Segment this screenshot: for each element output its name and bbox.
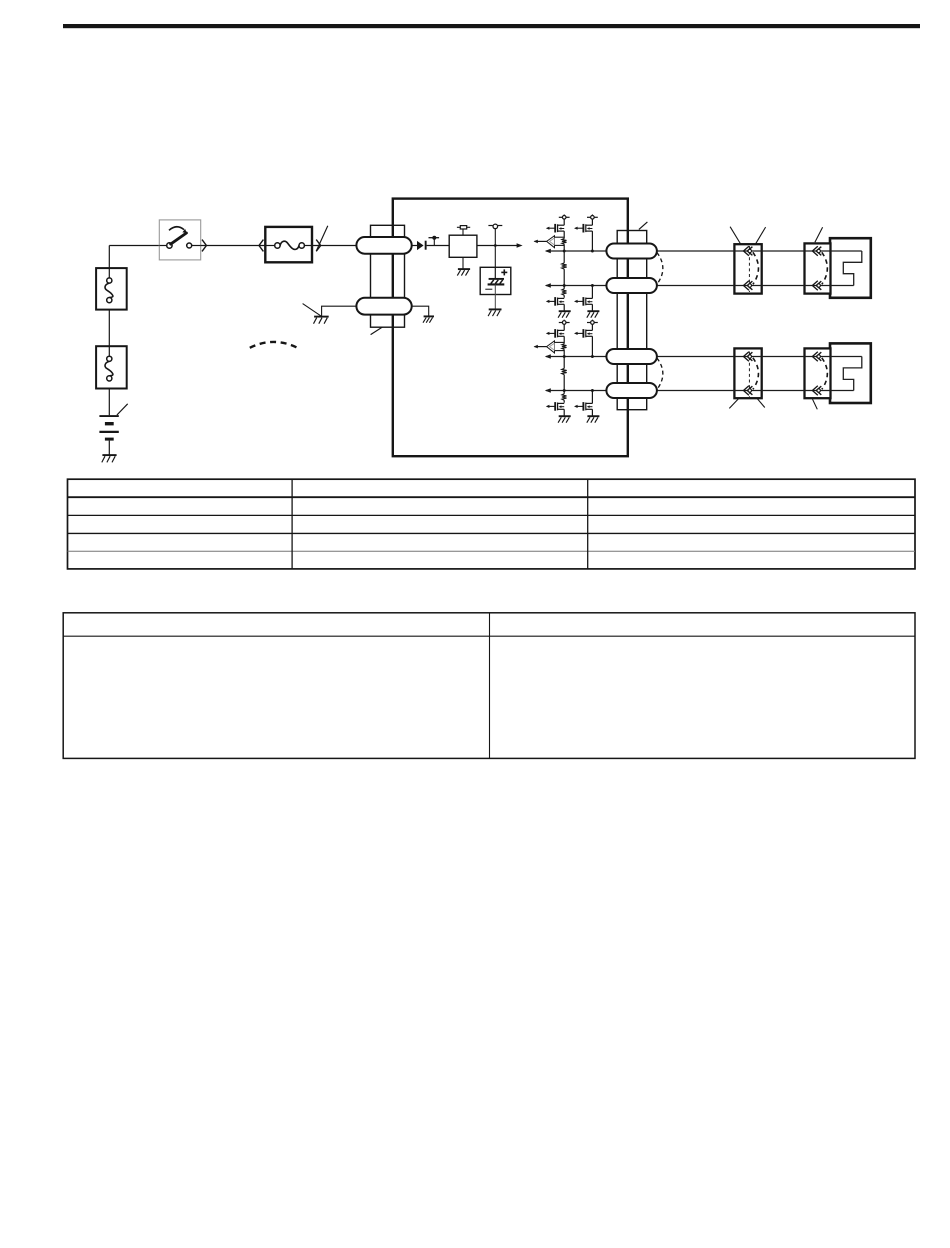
ground left of T1 xyxy=(314,316,329,318)
T2 winding capsule 4 xyxy=(606,383,657,398)
fuse F1 element xyxy=(105,283,113,298)
wire T1 to diode xyxy=(412,245,417,247)
ground Q24 xyxy=(587,415,599,417)
CN2 slash xyxy=(815,227,823,242)
main unit U1 outline xyxy=(393,199,628,457)
ground below BT2 xyxy=(489,308,502,310)
pin circle P4 xyxy=(494,229,496,268)
CN1 contacts xyxy=(748,246,750,292)
sense resistor R13 xyxy=(563,286,565,289)
connector chevron A xyxy=(202,240,206,252)
A1 output arrow xyxy=(534,240,546,242)
sense resistor R21 xyxy=(562,344,567,350)
switch S1 wire-out xyxy=(192,245,201,247)
wire Q23 to ground xyxy=(563,409,565,416)
battery BT1 plate4 xyxy=(105,438,114,441)
fuse F1 contact bottom xyxy=(107,298,112,303)
transistor Q23 xyxy=(547,405,555,407)
sense resistor R11 xyxy=(562,239,567,245)
table 2 header line xyxy=(63,635,915,637)
table 1 row line 3 xyxy=(68,532,916,534)
op-amp A1 xyxy=(547,236,555,248)
supply arrow right xyxy=(517,243,523,248)
fuse F3 contact R xyxy=(299,243,304,248)
slash at left ground xyxy=(303,304,321,316)
table 2 frame xyxy=(63,613,915,759)
header rule xyxy=(63,24,920,28)
transistor Q14 xyxy=(575,300,583,302)
BT2 lead in xyxy=(494,267,496,278)
fuse F2 contact top xyxy=(107,356,112,361)
wire bus to Q14 xyxy=(591,286,593,299)
wire regulator to arrow xyxy=(477,245,517,247)
CN1 slash right xyxy=(756,227,766,244)
wire battery riser xyxy=(108,246,110,269)
op-amp A2 xyxy=(547,341,555,353)
connector chevron C xyxy=(316,240,321,252)
CN3 contacts xyxy=(748,352,750,398)
CN3 slash right xyxy=(757,399,765,408)
motor wire W1 xyxy=(545,249,551,253)
T1 winding capsule top xyxy=(356,237,411,254)
motor M2 winding xyxy=(843,357,862,391)
switch S1 contact R xyxy=(187,243,192,248)
transistor Q24 xyxy=(575,405,583,407)
CN4 slash xyxy=(813,399,818,409)
fuse F3 box xyxy=(265,227,312,262)
slash mark below T1 xyxy=(371,327,383,335)
connector CN4 xyxy=(805,348,831,398)
transformer T2 frame xyxy=(617,231,647,410)
ground Q23 xyxy=(559,415,571,417)
T2 coupling arc top xyxy=(657,253,663,285)
transistor Q12 xyxy=(575,227,583,229)
battery BT1 plate1 xyxy=(99,415,118,417)
table 1 column line 2 xyxy=(587,479,589,569)
bridge resistor R22 xyxy=(563,357,565,369)
fuse F2 contact bottom xyxy=(107,376,112,381)
fuse F1 lead xyxy=(108,268,110,278)
fuse F2 element xyxy=(105,361,113,376)
motor M1 winding xyxy=(843,251,862,286)
transistor Q22 xyxy=(575,332,583,334)
supply pin 1a xyxy=(563,214,565,215)
supply pin 2b xyxy=(591,320,593,321)
table 1 column line 1 xyxy=(291,479,293,569)
junction dots W4 xyxy=(563,389,566,392)
A2 input top xyxy=(555,341,565,343)
motor M1 box xyxy=(830,238,871,298)
CN1 slash left xyxy=(730,227,741,244)
transistor Q11 xyxy=(547,227,555,229)
switch S1 contact L xyxy=(167,243,172,248)
transistor Q13 xyxy=(547,300,555,302)
harness slash C xyxy=(316,226,327,251)
fuse F1 contact top xyxy=(107,278,112,283)
connector CN2 xyxy=(805,243,831,293)
wire fuse to T1 xyxy=(312,245,356,247)
CN4 contacts xyxy=(822,358,828,390)
battery BT1 stub xyxy=(108,441,110,455)
tap point TP1 xyxy=(433,238,435,246)
fuse F3 contact L xyxy=(275,243,280,248)
ground below battery xyxy=(102,454,116,456)
junction dots W3 xyxy=(563,355,566,358)
ground below U2 xyxy=(462,257,464,269)
wire diode to regulator xyxy=(427,245,450,247)
connector CN1 xyxy=(734,244,761,293)
wire pin to Q21 xyxy=(563,324,565,330)
wire Q24 to ground xyxy=(591,409,593,416)
wire T1 cap2 right to ground xyxy=(412,306,429,316)
junction dots W1 xyxy=(563,250,566,253)
wire R11 to bus xyxy=(563,244,565,251)
ignition switch S1 box xyxy=(159,220,200,260)
wire Q11 source xyxy=(563,231,565,238)
T2 winding capsule 2 xyxy=(606,278,657,293)
regulator U2 box xyxy=(449,235,477,257)
ground Q13 xyxy=(559,310,571,312)
wire Q21 source xyxy=(563,336,565,343)
battery BT1 plate2 xyxy=(105,422,114,425)
fuse F3 lead L xyxy=(265,245,274,247)
supply pin 2a xyxy=(563,320,565,321)
connector CN3 xyxy=(734,348,761,398)
ground Q14 xyxy=(587,310,599,312)
CN2 contacts xyxy=(822,252,828,284)
motor wire W4 xyxy=(545,388,551,392)
BT2 plus sign xyxy=(501,271,507,273)
battery BT1 plate3 xyxy=(99,431,118,433)
fuse F1 box xyxy=(96,268,127,310)
ground right of T1 xyxy=(424,315,434,317)
wire switch to fuse xyxy=(201,245,266,247)
transformer T1 frame xyxy=(371,225,405,327)
T2 winding capsule 3 xyxy=(606,349,657,364)
wire T1 cap2 left to ground xyxy=(322,306,357,316)
sense resistor R23 xyxy=(563,391,565,394)
pin symbol above U2 xyxy=(462,229,464,235)
switch S1 lever xyxy=(171,233,187,244)
table 1 header line xyxy=(68,496,916,498)
switch S1 wire-in xyxy=(159,245,166,247)
wire Q13 to ground xyxy=(563,304,565,311)
T2 winding capsule 1 xyxy=(606,244,657,259)
BT2 cell xyxy=(489,278,504,280)
motor wire W2 xyxy=(545,283,551,287)
T1 winding capsule bottom xyxy=(356,298,411,315)
fuse F2 box xyxy=(96,346,127,388)
A2 input bottom xyxy=(555,350,565,352)
junction dots W2 xyxy=(563,284,566,287)
backup battery BT2 box xyxy=(480,267,511,294)
CN3 slash left xyxy=(729,399,738,409)
motor M2 box xyxy=(830,343,871,403)
BT2 lead to ground xyxy=(494,284,496,309)
supply pin 1b xyxy=(591,214,593,215)
BT2 minus sign xyxy=(485,288,492,290)
A1 input bottom xyxy=(555,244,565,246)
wire pin to Q11 xyxy=(563,219,565,225)
table 1 frame xyxy=(68,479,916,569)
fuse F2 lead xyxy=(108,346,110,356)
fuse F3 element xyxy=(280,241,299,249)
wire to ignition switch xyxy=(109,245,159,247)
wire pin to Q22 xyxy=(591,324,593,330)
table 1 row line 4 xyxy=(68,550,916,552)
table 1 row line 2 xyxy=(68,514,916,516)
switch S1 rotate arrow xyxy=(169,227,184,231)
battery BT1 slash xyxy=(117,404,128,415)
T2 coupling arc bottom xyxy=(657,358,663,390)
bridge resistor R12 xyxy=(563,251,565,263)
transistor Q21 xyxy=(547,332,555,334)
wire F2 to battery xyxy=(108,389,110,416)
wire pin to Q12 xyxy=(591,219,593,225)
diode D1 xyxy=(417,241,424,250)
wire Q22 source xyxy=(591,336,593,356)
wire Q12 source xyxy=(591,231,593,251)
fuse F3 lead R xyxy=(304,245,312,247)
A2 output arrow xyxy=(534,346,546,348)
wire R21 to bus xyxy=(563,349,565,356)
wire F1 to F2 xyxy=(108,310,110,347)
A1 input top xyxy=(555,236,565,238)
slash mark above T2 xyxy=(639,222,648,230)
table 2 column line xyxy=(489,613,491,759)
junction dot xyxy=(494,244,497,247)
motor wire W3 xyxy=(545,354,551,358)
connector chevron B xyxy=(259,240,263,252)
wire Q14 to ground xyxy=(591,304,593,311)
dashed harness arc xyxy=(250,342,298,348)
wire bus to Q24 xyxy=(591,391,593,404)
